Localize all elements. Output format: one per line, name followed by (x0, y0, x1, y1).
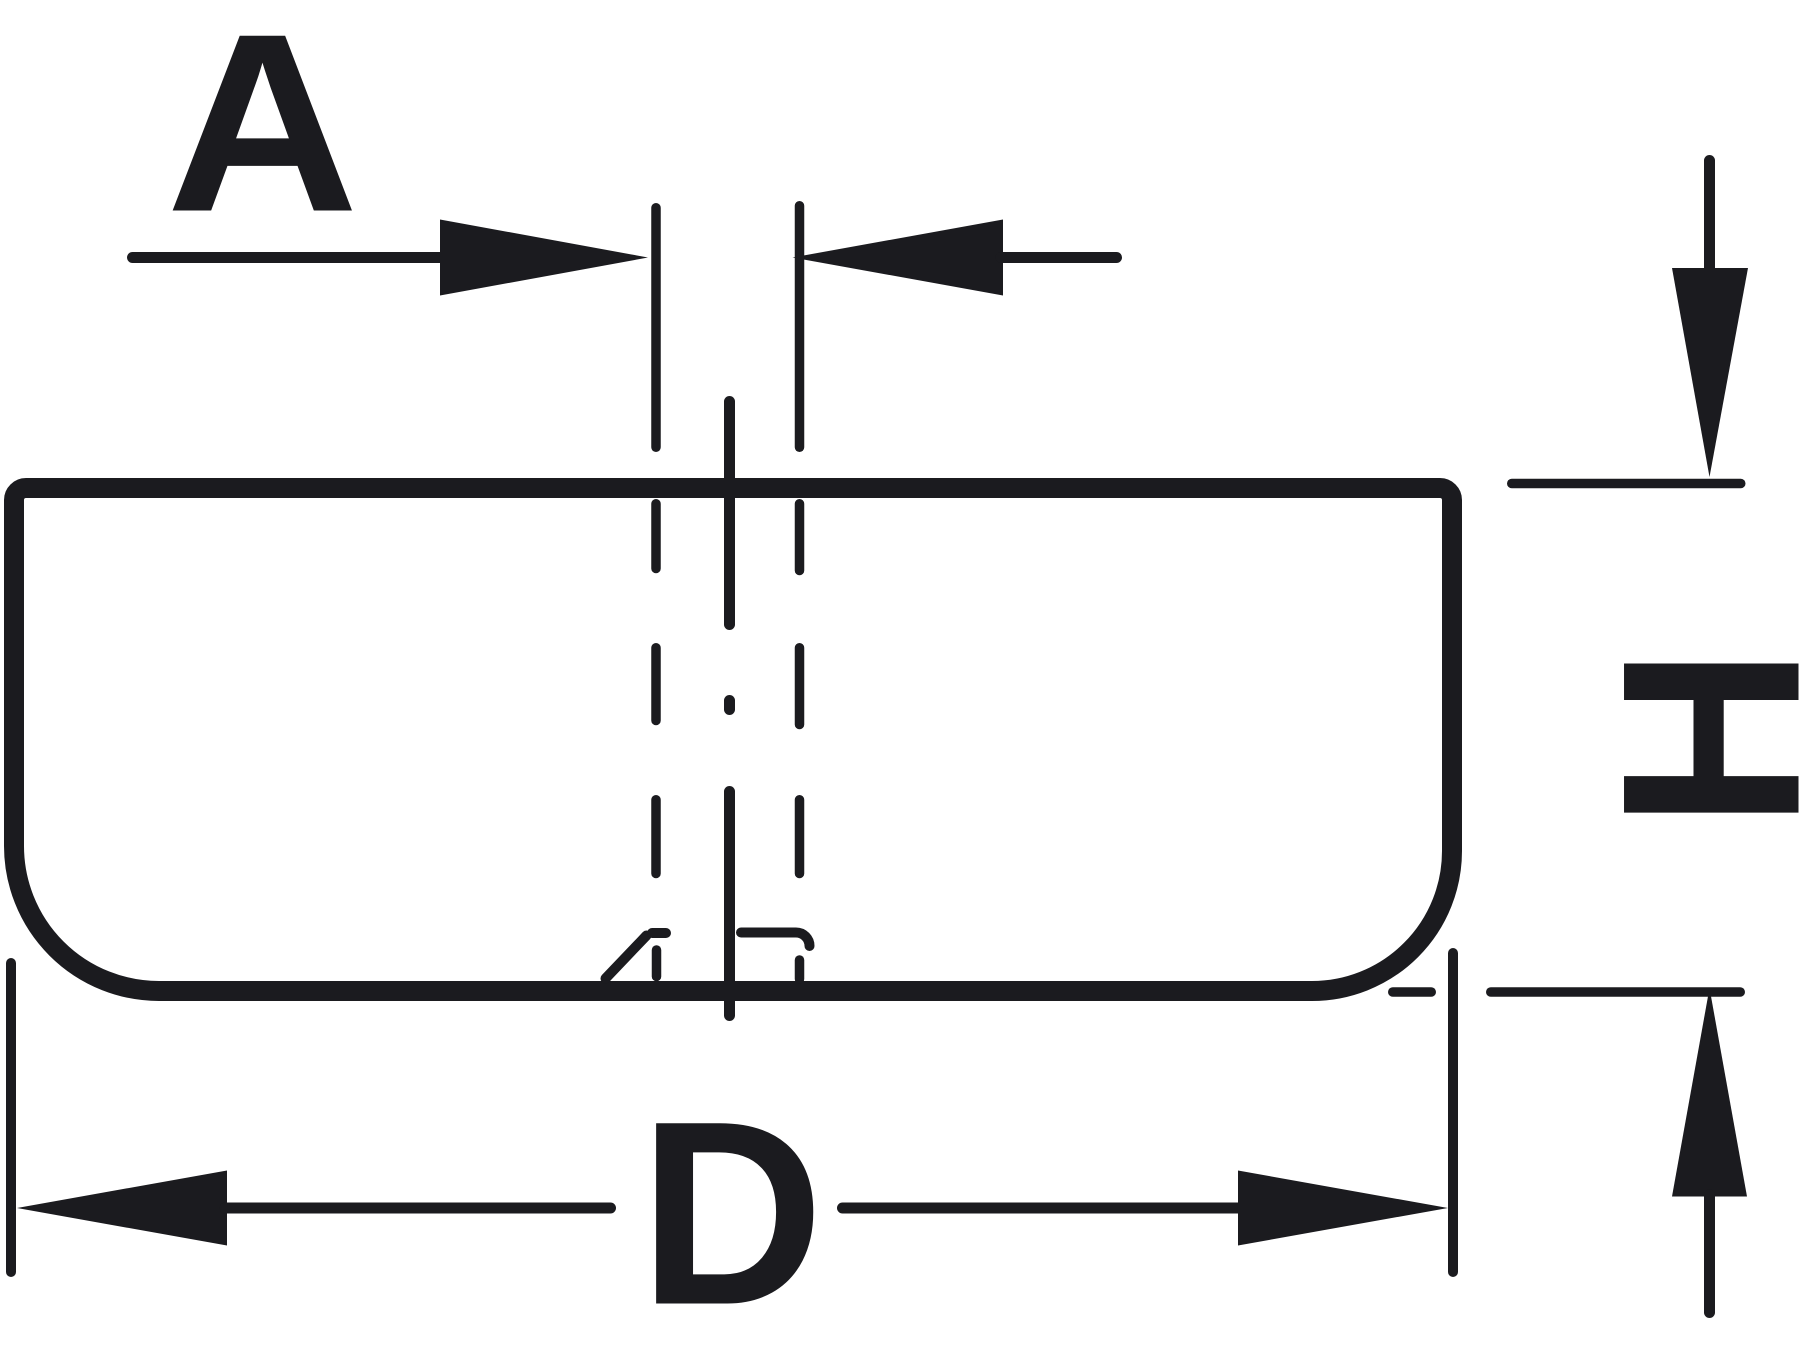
D extension line right (1448, 953, 1458, 1272)
arrowhead A left-pointing (793, 220, 1004, 296)
dimension line A right segment (1001, 252, 1117, 263)
hidden hole line right (dashed) (795, 504, 805, 571)
H bottom arrowhead (up) (1672, 988, 1747, 1197)
H top arrow shaft (1704, 161, 1715, 273)
extension line slot right (795, 206, 805, 448)
H top extension line (1512, 479, 1741, 489)
arrowhead A right-pointing (440, 220, 648, 296)
center line (dash-dot) (724, 402, 735, 625)
H bottom extension line segment 2 (1491, 987, 1741, 997)
svg-text:H: H (1569, 646, 1800, 829)
dimension line A left segment (133, 252, 443, 263)
svg-text:A: A (166, 0, 359, 265)
H top arrowhead (down) (1672, 268, 1748, 477)
D dimension line left segment (225, 1203, 611, 1214)
chamfer detail left (diagonal with tick) (606, 936, 647, 979)
svg-text:D: D (639, 1067, 824, 1350)
D dimension line right segment (843, 1203, 1243, 1214)
D arrowhead left-pointing (17, 1171, 227, 1246)
extension line slot left (651, 208, 661, 448)
D extension line left (6, 963, 16, 1272)
body outline (cap cross-section) (14, 488, 1452, 991)
H bottom arrow shaft (1704, 1195, 1715, 1313)
D arrowhead right-pointing (1238, 1171, 1448, 1246)
H bottom extension line segment 1 (1393, 987, 1432, 997)
hole bottom detail right (hook) (741, 933, 810, 947)
hidden hole line left (dashed) (651, 504, 661, 569)
